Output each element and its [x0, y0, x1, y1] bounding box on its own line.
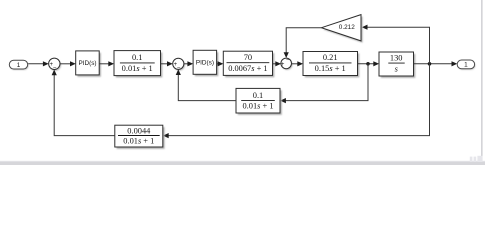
wire: S1 to PID U1	[60, 63, 71, 65]
svg-text:s: s	[395, 64, 398, 73]
transfer function block 0.0044/(0.01s+1) feedback	[115, 125, 165, 149]
transfer function block 0.1/(0.01s+1)	[114, 51, 162, 78]
window border right edge	[481, 0, 482, 165]
transfer function block 0.1/(0.01s+1) feedback	[236, 88, 282, 115]
wire: TF5 to sum S2 bottom	[178, 73, 236, 100]
svg-text:1: 1	[464, 62, 468, 69]
svg-text:0.21: 0.21	[323, 53, 338, 62]
transfer function block 70/(0.0067s+1)	[223, 51, 274, 77]
svg-text:0.01s + 1: 0.01s + 1	[123, 137, 154, 146]
wire: TF2 to sum S3	[273, 63, 277, 65]
svg-text:0.01s + 1: 0.01s + 1	[242, 102, 273, 111]
svg-text:0.01s + 1: 0.01s + 1	[122, 64, 153, 73]
transfer function block 130/s	[379, 52, 415, 78]
svg-text:0.1: 0.1	[132, 53, 142, 62]
wire: G1 to sum S3 top	[286, 28, 321, 54]
svg-text:0.0067s + 1: 0.0067s + 1	[228, 64, 267, 73]
svg-text:PID(s): PID(s)	[196, 60, 214, 67]
svg-text:0.0044: 0.0044	[127, 126, 151, 135]
svg-text:0.212: 0.212	[339, 24, 355, 31]
svg-text:+: +	[281, 62, 285, 68]
wire: S3 to TF3	[292, 63, 299, 65]
wire: TF6 to sum S1 bottom	[54, 74, 115, 136]
svg-text:−: −	[53, 65, 57, 71]
junction node J2	[428, 62, 432, 66]
wire: J2 up and left to gain G1	[367, 27, 430, 64]
svg-text:0.1: 0.1	[253, 91, 263, 100]
PID controller U2	[193, 50, 218, 76]
wire: J1 down and left to TF5	[285, 64, 368, 101]
sum junction S2	[173, 58, 185, 71]
svg-text:−: −	[286, 58, 290, 64]
wire: TF1 to sum S2	[161, 63, 169, 65]
gain block 0.212	[322, 15, 363, 43]
wire: U1 to TF1	[99, 63, 109, 65]
svg-text:0.15s + 1: 0.15s + 1	[315, 64, 346, 73]
window border bottom edge	[0, 161, 485, 162]
wire: J2 down and left to TF6	[167, 64, 430, 136]
wire: TF3 to TF4 with junction J1	[358, 63, 375, 65]
svg-text:PID(s): PID(s)	[78, 60, 96, 67]
wire: TF4 to Out1 with junction J2	[414, 63, 453, 65]
junction node J1	[366, 62, 370, 66]
transfer function block 0.21/(0.15s+1)	[303, 52, 359, 78]
resize grip bottom-right	[470, 156, 483, 162]
sink block Out1	[457, 60, 475, 70]
svg-text:70: 70	[244, 53, 252, 62]
svg-text:130: 130	[390, 54, 403, 63]
PID controller U1	[76, 51, 101, 77]
wire: U2 to TF2	[217, 63, 219, 65]
wire: S2 to PID U2	[184, 63, 189, 65]
svg-text:1: 1	[17, 62, 21, 69]
source block In1	[9, 60, 28, 70]
wire: In1 to sum S1	[28, 63, 44, 65]
sum junction S1	[49, 58, 61, 71]
sum junction S3	[281, 58, 293, 70]
